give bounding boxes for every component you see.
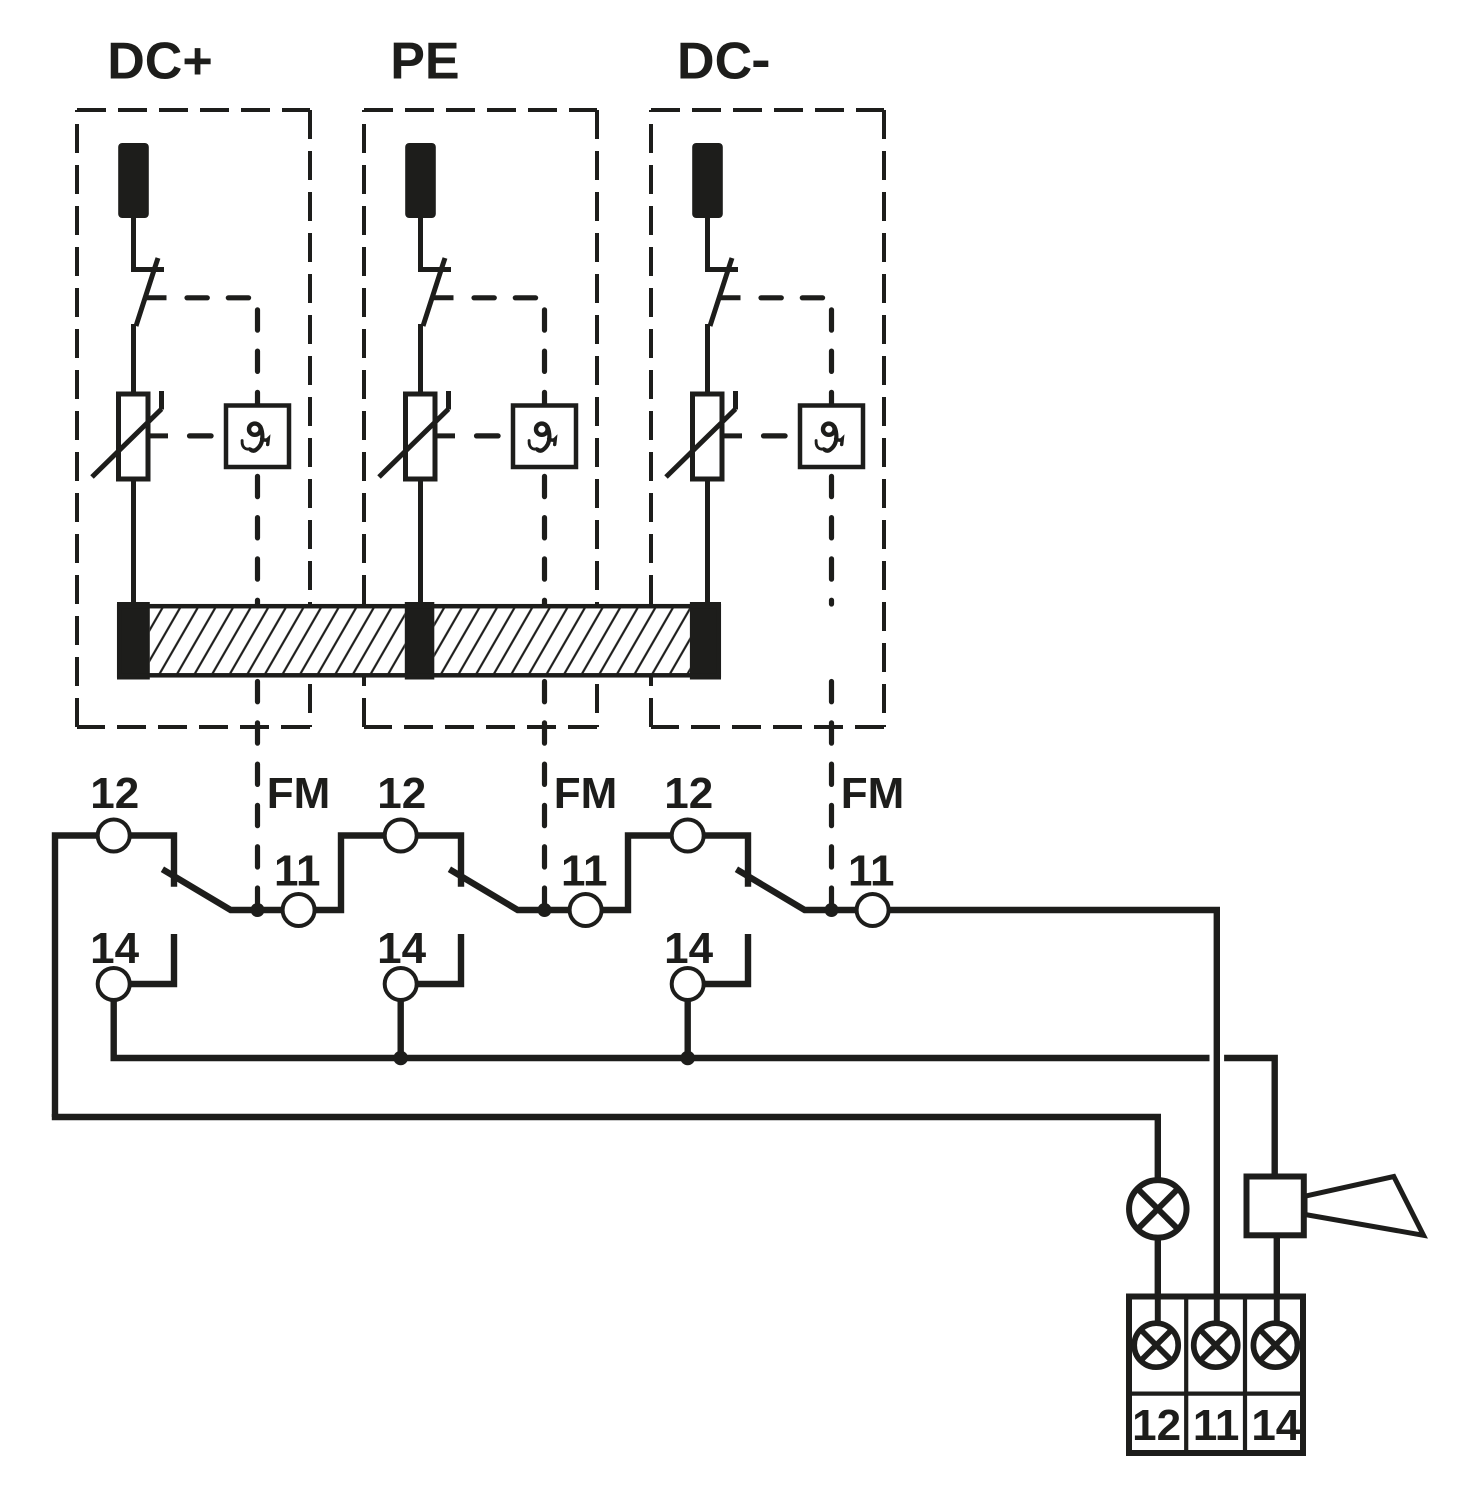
theta symbol xyxy=(529,424,555,451)
svg-text:11: 11 xyxy=(561,847,608,896)
varistor channel 2 xyxy=(406,394,436,479)
wire terminal to disconnector xyxy=(418,216,423,272)
junction dot 14-common / channel 2 xyxy=(393,1051,408,1066)
terminal PE (black pin) xyxy=(405,143,436,218)
contact 12 lead channel 1 xyxy=(130,836,174,887)
wire contact 11 to next 12 xyxy=(602,836,672,911)
screw terminal 12 xyxy=(1134,1323,1178,1367)
bar solder spot channel 1 xyxy=(117,602,150,680)
wire 14 down to common xyxy=(398,1000,404,1058)
thermal disconnect switch channel 3 xyxy=(705,258,741,326)
wire 14 down to common xyxy=(110,1000,116,1058)
contact 14 lead channel 3 xyxy=(704,934,748,984)
contact circle 12 channel 1 xyxy=(98,820,130,852)
contact circle 12 channel 3 xyxy=(672,820,704,852)
wire terminal to disconnector xyxy=(705,216,710,272)
svg-text:FM: FM xyxy=(554,769,618,818)
wire contact 11 to next 12 xyxy=(315,836,385,911)
screw terminal 11 xyxy=(1194,1323,1238,1367)
svg-text:PE: PE xyxy=(390,33,459,91)
svg-text:12: 12 xyxy=(1132,1401,1181,1450)
svg-text:DC+: DC+ xyxy=(107,33,212,91)
thermal disconnect switch channel 1 xyxy=(131,258,167,326)
changeover blade channel 2 xyxy=(449,869,569,910)
wire lamp to terminal 12 xyxy=(1155,1238,1161,1323)
wire varistor to disconnect bar xyxy=(131,477,136,606)
svg-text:12: 12 xyxy=(377,769,426,818)
theta symbol xyxy=(816,424,842,451)
svg-text:14: 14 xyxy=(1251,1401,1300,1450)
svg-text:11: 11 xyxy=(1193,1401,1240,1450)
thermal disconnect switch channel 2 xyxy=(418,258,454,326)
contact 14 lead channel 1 xyxy=(130,934,174,984)
terminal DC- (black pin) xyxy=(692,143,723,218)
varistor channel 3 xyxy=(693,394,723,479)
junction dot 14-common / channel 3 xyxy=(680,1051,695,1066)
bar solder spot channel 2 xyxy=(405,602,435,680)
svg-text:14: 14 xyxy=(90,924,139,973)
thermal coupling (dashed) varistor to sensor xyxy=(455,433,513,438)
svg-text:11: 11 xyxy=(274,847,321,896)
bar solder spot channel 3 xyxy=(690,602,721,680)
temperature sensor box channel 3 xyxy=(800,406,863,468)
indicator lamp xyxy=(1129,1180,1187,1238)
junction dot common point channel 2 xyxy=(538,903,552,917)
wire horn to terminal 14 xyxy=(1274,1235,1280,1323)
wire 14 down to common xyxy=(685,1000,691,1058)
wire disconnector to varistor xyxy=(418,324,423,396)
contact circle 11 channel 2 xyxy=(570,894,602,926)
screw terminal 14 xyxy=(1253,1323,1297,1367)
svg-text:FM: FM xyxy=(267,769,331,818)
contact 14 lead channel 2 xyxy=(417,934,461,984)
svg-text:14: 14 xyxy=(664,924,713,973)
varistor channel 1 xyxy=(119,394,149,479)
wire disconnector to varistor xyxy=(131,324,136,396)
mechanical linkage (dashed) switch to FM contact, channel 1 xyxy=(167,298,258,903)
signal common wire 14 (horizontal) xyxy=(114,1055,1210,1058)
remote signalling terminal block xyxy=(1129,1297,1303,1454)
wire varistor to disconnect bar xyxy=(705,477,710,606)
SPD channel 1 (DC+) dashed enclosure xyxy=(77,110,310,727)
contact circle 14 channel 1 xyxy=(98,968,130,1000)
contact circle 14 channel 2 xyxy=(385,968,417,1000)
temperature sensor box channel 1 xyxy=(226,406,289,468)
wire stubs into terminals xyxy=(1158,1297,1277,1324)
mechanical linkage (dashed) switch to FM contact, channel 3 xyxy=(741,298,832,903)
wire disconnector to varistor xyxy=(705,324,710,396)
contact 12 lead channel 2 xyxy=(417,836,461,887)
contact circle 14 channel 3 xyxy=(672,968,704,1000)
svg-text:12: 12 xyxy=(664,769,713,818)
thermal disconnect bar (hatched) xyxy=(117,602,721,680)
wire terminal to disconnector xyxy=(131,216,136,272)
changeover blade channel 3 xyxy=(736,869,856,910)
junction dot common point channel 1 xyxy=(251,903,265,917)
contact circle 11 channel 1 xyxy=(283,894,315,926)
acoustic horn / buzzer xyxy=(1247,1177,1304,1236)
junction dot common point channel 3 xyxy=(825,903,839,917)
svg-text:FM: FM xyxy=(841,769,905,818)
svg-text:DC: DC xyxy=(677,33,752,91)
signal wire 12 to lamp xyxy=(55,1114,1158,1181)
svg-text:14: 14 xyxy=(377,924,426,973)
wire from contact 12 to signal line (left drop) xyxy=(55,836,98,1118)
thermal coupling (dashed) varistor to sensor xyxy=(742,433,800,438)
contact circle 12 channel 2 xyxy=(385,820,417,852)
contact circle 11 channel 3 xyxy=(857,894,889,926)
theta symbol xyxy=(242,424,268,451)
svg-text:12: 12 xyxy=(90,769,139,818)
temperature sensor box channel 2 xyxy=(513,406,576,468)
SPD channel 3 (DC-) dashed enclosure xyxy=(651,110,884,727)
changeover blade channel 1 xyxy=(162,869,282,910)
wire contact 11 to terminal 11 xyxy=(889,910,1217,1323)
terminal DC+ (black pin) xyxy=(118,143,149,218)
thermal coupling (dashed) varistor to sensor xyxy=(168,433,226,438)
wire varistor to disconnect bar xyxy=(418,477,423,606)
contact 12 lead channel 3 xyxy=(704,836,748,887)
svg-text:11: 11 xyxy=(848,847,895,896)
SPD channel 2 (PE) dashed enclosure xyxy=(364,110,597,727)
mechanical linkage (dashed) switch to FM contact, channel 2 xyxy=(454,298,545,903)
